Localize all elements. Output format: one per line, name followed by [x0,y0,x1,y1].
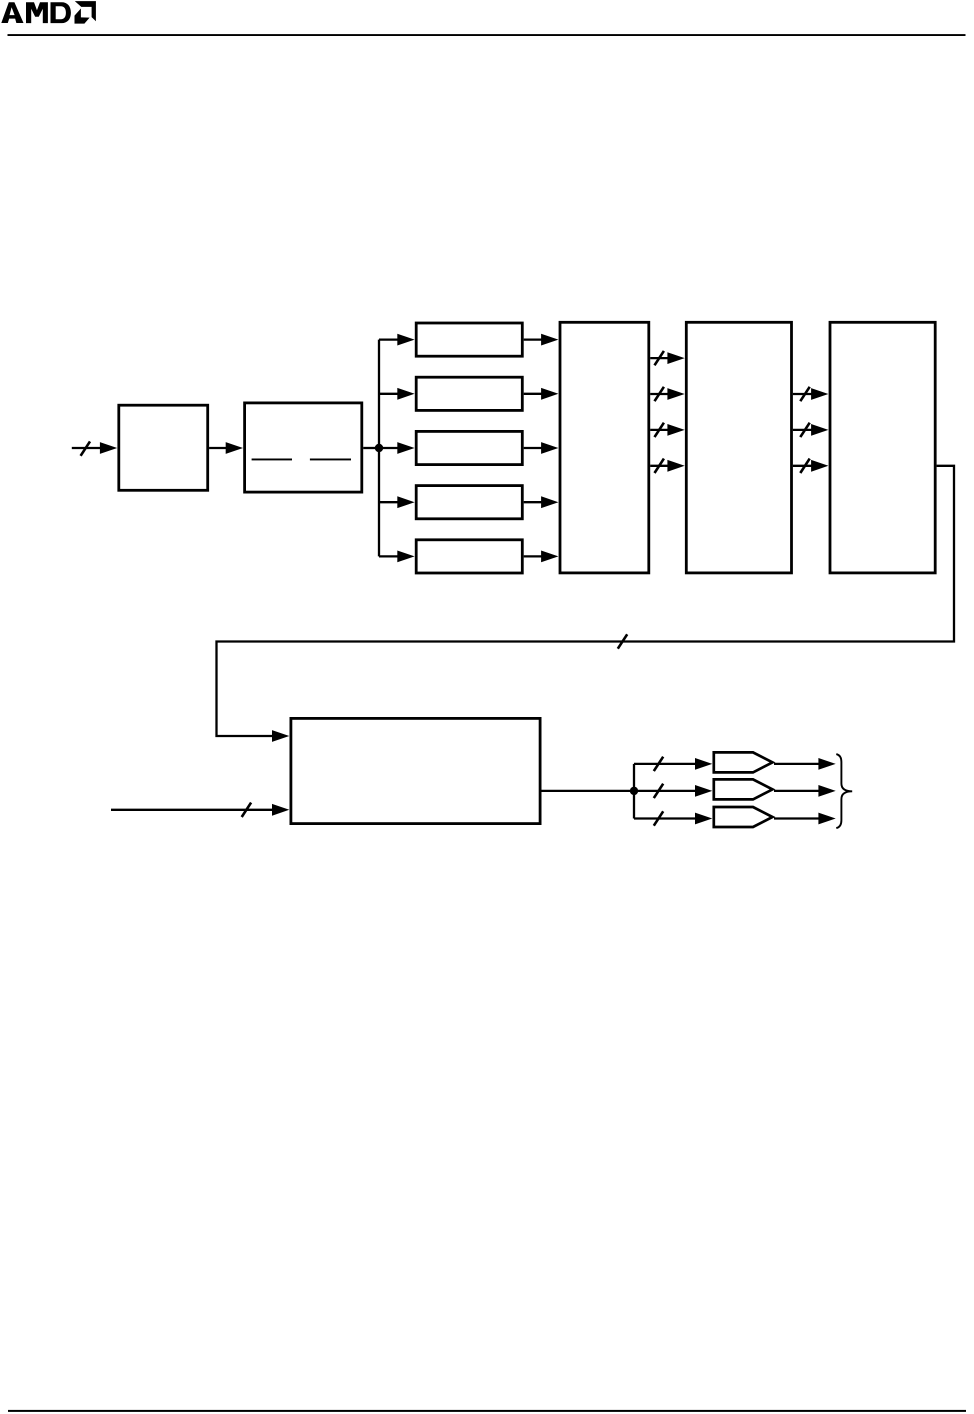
wire: S2 to S3 bus 1 [793,393,812,395]
wire: fanout to buffer BUF3 [634,817,695,819]
arrowhead: into BUF3 [695,813,712,825]
arrowhead: lower input into B3 [272,804,289,816]
wire: BUF2 output [774,790,819,792]
slash: BUF3 input bus [654,811,663,825]
wire: S1 to S2 bus 1 [650,357,668,359]
node N1 junction dot [375,444,383,452]
wire: B2 to node N1 [363,447,379,449]
stage block S2 [686,322,791,573]
wire: S1 to S2 bus 4 [650,465,668,467]
slash: S2-S3 bus 2 [800,423,809,437]
wire: S3 output to feedback corner [217,466,955,736]
stage block S3 [830,322,935,573]
wire: vertical fanout bus [378,340,380,557]
block B3 [291,718,540,823]
wire: S2 to S3 bus 3 [793,465,812,467]
slash: BUF1 input bus [654,757,663,771]
arrowhead: into R3 [397,442,414,454]
wire: fanout to buffer BUF1 [634,763,695,765]
arrowhead: BUF3 output [818,813,835,825]
slash: main input bus [81,441,90,455]
wire: lower input [111,809,273,811]
arrowhead: S1-S2 bus 3 [667,424,684,436]
wire: BUF1 output [774,763,819,765]
AMD arrow symbol [75,1,96,24]
arrowhead: S1-S2 bus 4 [667,460,684,472]
slash: S1-S2 bus 2 [655,387,664,401]
arrowhead: R5 into S1 [541,551,558,563]
bottom rule [8,1410,966,1412]
value blank 2 in B2 [310,459,351,461]
slash: S2-S3 bus 1 [800,387,809,401]
arrowhead: R2 into S1 [541,388,558,400]
AMD wordmark letter M [26,2,48,23]
value blank 1 in B2 [252,459,292,461]
wire: fanout to buffer BUF2 [634,790,695,792]
wire: R5 to S1 [524,555,542,557]
slash: S1-S2 bus 3 [655,423,664,437]
arrowhead: into block B2 [226,442,243,454]
wire: BUF3 output [774,817,819,819]
AMD wordmark letter A [1,2,23,23]
wire: output fanout vertical [633,764,635,819]
top rule [8,34,966,36]
AMD wordmark letter D [51,2,71,23]
arrowhead: S1-S2 bus 1 [667,352,684,364]
wire: B3 output to node N2 [542,790,635,792]
register R4 [416,486,522,519]
wire: S2 to S3 bus 2 [793,429,812,431]
arrowhead: into R5 [397,551,414,563]
arrowhead: R1 into S1 [541,334,558,346]
arrowhead: S2-S3 bus 3 [811,460,828,472]
wire: R3 to S1 [524,447,542,449]
slash: BUF2 input bus [654,784,663,798]
node N2 junction dot [630,787,638,795]
wire: fanout to R4 [379,501,399,503]
arrowhead: into R4 [397,496,414,508]
register R1 [416,323,522,356]
brace: output group [836,754,852,828]
slash: S2-S3 bus 3 [800,459,809,473]
arrowhead: into block B1 [100,442,117,454]
wire: fanout to R2 [379,393,399,395]
arrowhead: into R2 [397,388,414,400]
wire: R4 to S1 [524,501,542,503]
arrowhead: BUF2 output [818,785,835,797]
slash: lower input bus [242,803,251,817]
wire: S1 to S2 bus 3 [650,429,668,431]
wire: fanout to R3 [379,447,399,449]
arrowhead: S2-S3 bus 2 [811,424,828,436]
arrowhead: into R1 [397,334,414,346]
arrowhead: BUF1 output [818,758,835,770]
block B1 [119,405,208,490]
slash: feedback bus [618,634,627,648]
wire: fanout to R5 [379,555,399,557]
slash: S1-S2 bus 4 [655,459,664,473]
arrowhead: feedback into block B3 [272,730,289,742]
arrowhead: R4 into S1 [541,496,558,508]
register R5 [416,540,522,573]
stage block S1 [560,322,649,573]
arrowhead: into BUF2 [695,785,712,797]
arrowhead: into BUF1 [695,758,712,770]
arrowhead: S2-S3 bus 1 [811,388,828,400]
wire: R2 to S1 [524,393,542,395]
wire: S1 to S2 bus 2 [650,393,668,395]
slash: S1-S2 bus 1 [655,351,664,365]
register R2 [416,377,522,410]
wire: fanout to R1 [379,338,399,340]
block B2 [245,403,362,492]
arrowhead: R3 into S1 [541,442,558,454]
wire: B1 to B2 [209,447,226,449]
wire: R1 to S1 [524,338,542,340]
buffer BUF1 [714,752,773,772]
wire: main input [72,447,100,449]
buffer BUF3 [714,807,773,827]
arrowhead: S1-S2 bus 2 [667,388,684,400]
register R3 [416,431,522,464]
buffer BUF2 [714,779,773,799]
